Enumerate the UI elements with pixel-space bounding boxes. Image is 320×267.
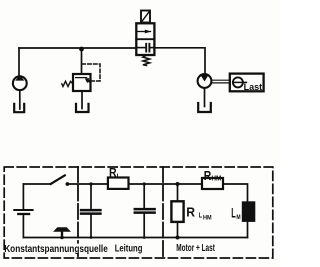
tank T1 bbox=[14, 104, 24, 112]
pilot dashed line bbox=[82, 64, 100, 81]
shaft double line bbox=[212, 79, 230, 81]
resistor R_HM bbox=[202, 178, 223, 189]
section divider 2 bbox=[162, 167, 164, 258]
svg-text:Last: Last bbox=[244, 82, 263, 93]
flow arrow top cell bbox=[138, 31, 151, 33]
load box Last bbox=[230, 74, 264, 92]
capacitor C1 bbox=[90, 184, 92, 209]
svg-text:R: R bbox=[204, 169, 212, 183]
resistor R_L,HM branch bbox=[176, 182, 180, 186]
wire: down to pump bbox=[18, 48, 20, 76]
wire: R_L to R_HM bbox=[129, 183, 203, 185]
valve W1 body bbox=[136, 23, 154, 55]
svg-text:R: R bbox=[186, 205, 195, 219]
tank T3 bbox=[198, 103, 211, 112]
outer dashed frame bbox=[4, 167, 273, 258]
resistor R_L bbox=[108, 178, 129, 189]
relief valve V2 bbox=[73, 74, 91, 91]
wire: supply line pump to valve bbox=[19, 47, 136, 49]
switch S1 bbox=[51, 175, 65, 184]
valve spring bbox=[143, 55, 150, 65]
svg-text:L: L bbox=[199, 211, 203, 220]
svg-text:M: M bbox=[236, 214, 240, 221]
section divider 1 bbox=[77, 167, 79, 258]
node: junction above relief valve bbox=[79, 47, 84, 52]
inductor L_M bbox=[242, 201, 256, 222]
wire: junction down to relief valve bbox=[81, 48, 83, 74]
wire: pump to tank bbox=[19, 91, 21, 110]
bottom return wire bbox=[23, 237, 247, 239]
wire: battery to switch bbox=[23, 183, 50, 185]
pump P1 bbox=[13, 76, 27, 90]
wire: relief valve to tank bbox=[81, 91, 83, 109]
svg-text:HM: HM bbox=[203, 216, 212, 222]
motor M1 bbox=[198, 74, 212, 88]
blocked ports bottom cell bbox=[136, 47, 146, 49]
svg-text:Motor + Last: Motor + Last bbox=[176, 243, 215, 254]
wire: switch to R_L bbox=[67, 183, 108, 185]
wire: motor to tank bbox=[204, 88, 206, 107]
valve W1 actuator bbox=[141, 11, 150, 23]
svg-text:HM: HM bbox=[211, 174, 221, 183]
battery B1 bbox=[22, 184, 24, 209]
svg-text:L: L bbox=[231, 205, 236, 221]
svg-text:L: L bbox=[117, 173, 121, 180]
ground symbol bbox=[53, 227, 71, 231]
white gap for title over divider bbox=[76, 244, 82, 253]
capacitor C2 bbox=[143, 184, 145, 208]
spring of relief valve bbox=[62, 81, 73, 86]
wire: valve to motor bbox=[154, 48, 205, 74]
wire: inductor to bottom bbox=[247, 222, 249, 238]
svg-text:Leitung: Leitung bbox=[115, 243, 143, 254]
tank T2 bbox=[76, 104, 89, 112]
wire: R_HM to inductor bbox=[223, 184, 248, 201]
svg-text:Konstantspannungsquelle: Konstantspannungsquelle bbox=[4, 244, 108, 255]
